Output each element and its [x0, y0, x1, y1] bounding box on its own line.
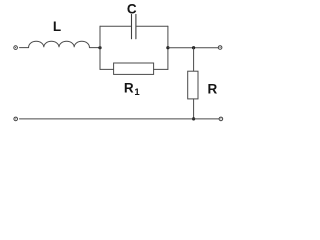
wire bottom rail: [20, 118, 220, 120]
wire node B to output terminal: [168, 47, 218, 49]
label R1: [124, 80, 140, 98]
inductor L: [29, 41, 90, 47]
node D junction dot: [192, 117, 195, 120]
capacitor C: [132, 14, 136, 38]
wire bottom branch left: [100, 68, 114, 70]
wire node C down to resistor R: [193, 48, 195, 71]
wire resistor R to bottom rail: [193, 99, 195, 119]
svg-text:C: C: [127, 1, 137, 16]
svg-text:R: R: [208, 82, 218, 97]
wire inductor to node A: [90, 47, 100, 49]
wire right vertical of parallel loop: [167, 26, 169, 69]
svg-text:R: R: [124, 80, 134, 95]
resistor R1: [114, 63, 154, 74]
node C junction dot: [192, 46, 195, 49]
resistor R: [188, 71, 198, 99]
wire left vertical of parallel loop: [99, 26, 101, 69]
wire top branch right: [136, 25, 168, 27]
wire input to inductor: [20, 47, 29, 49]
svg-text:1: 1: [134, 87, 140, 98]
node B junction dot: [166, 46, 169, 49]
terminal bottom-right: [219, 117, 223, 121]
wire top branch left: [100, 25, 132, 27]
node A junction dot: [98, 46, 101, 49]
terminal input top-left: [14, 46, 18, 50]
terminal bottom-left: [14, 117, 18, 121]
wire bottom branch right: [154, 68, 168, 70]
terminal output top-right: [218, 46, 222, 50]
svg-text:L: L: [53, 19, 61, 34]
